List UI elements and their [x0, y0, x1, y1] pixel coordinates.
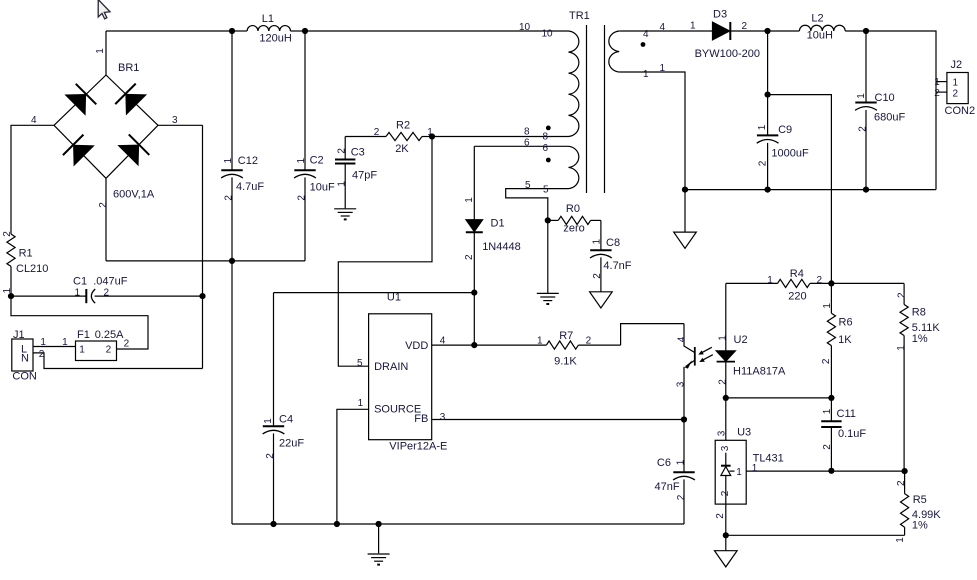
svg-text:D1: D1	[491, 218, 505, 230]
node top-rail junction left	[229, 28, 235, 34]
svg-text:22uF: 22uF	[279, 438, 304, 450]
svg-text:CON: CON	[12, 371, 37, 383]
wire TR1 pin4 to D3	[619, 30, 712, 32]
svg-text:1: 1	[690, 21, 696, 32]
diode BR1 top-right	[115, 84, 146, 115]
svg-text:2: 2	[934, 88, 940, 99]
wire bridge pin1 to rail	[105, 31, 107, 75]
svg-text:2: 2	[586, 336, 592, 347]
diode BR1 bottom-left	[63, 135, 94, 166]
wire bridge pin2 down	[105, 178, 107, 261]
svg-text:2: 2	[822, 444, 833, 450]
node R1/C1/fuse junction	[8, 293, 14, 299]
wire R5 bottom to TL431 anode	[726, 534, 905, 536]
svg-text:R8: R8	[912, 307, 926, 319]
svg-text:1: 1	[296, 157, 307, 163]
node C9 bottom junction	[765, 187, 771, 193]
svg-text:1: 1	[856, 93, 867, 99]
svg-text:TR1: TR1	[569, 10, 590, 22]
svg-text:3: 3	[440, 412, 446, 423]
capacitor C8	[600, 220, 602, 250]
svg-text:0.25A: 0.25A	[95, 329, 124, 341]
svg-text:2: 2	[821, 358, 832, 364]
wire D3 to L2 node	[730, 30, 767, 32]
diode BR1 bottom-right	[118, 134, 149, 165]
ground C3	[334, 209, 356, 220]
svg-text:5: 5	[543, 184, 549, 195]
svg-text:2: 2	[718, 379, 729, 385]
svg-text:J1: J1	[13, 329, 25, 341]
node FB/C6 junction	[681, 416, 687, 422]
capacitor C3	[344, 137, 346, 160]
node U3 anode junction	[723, 532, 729, 538]
svg-text:U2: U2	[734, 334, 748, 346]
svg-text:1N4448: 1N4448	[482, 241, 521, 253]
svg-text:C6: C6	[657, 457, 671, 469]
svg-text:L1: L1	[262, 13, 274, 25]
svg-text:3: 3	[172, 115, 178, 126]
wire neutral vertical	[202, 125, 204, 368]
wire TR1 pin8 lead	[432, 136, 569, 138]
svg-text:VIPer12A-E: VIPer12A-E	[389, 441, 447, 453]
svg-text:1: 1	[934, 77, 940, 88]
wire primary ground rail	[232, 523, 684, 525]
wire L1 lead right	[291, 30, 306, 32]
svg-text:1: 1	[767, 275, 773, 286]
resistor R5	[904, 471, 906, 494]
ground C8	[590, 292, 613, 308]
svg-text:8: 8	[543, 131, 549, 142]
wire L2 lead left	[768, 30, 800, 32]
ground TL431	[715, 551, 738, 567]
svg-text:120uH: 120uH	[259, 33, 291, 45]
svg-text:C2: C2	[310, 155, 324, 167]
light arrows U2	[702, 347, 713, 360]
wire TR1 pin6 lead	[474, 145, 568, 147]
svg-text:2: 2	[104, 287, 110, 298]
capacitor C10	[865, 31, 867, 103]
svg-text:C10: C10	[875, 92, 895, 104]
svg-text:1: 1	[896, 345, 907, 351]
svg-text:H11A817A: H11A817A	[733, 366, 786, 378]
node C9 top junction	[765, 92, 771, 98]
svg-text:2: 2	[953, 89, 959, 100]
svg-text:C4: C4	[279, 414, 293, 426]
svg-text:L2: L2	[811, 13, 823, 25]
svg-text:BYW100-200: BYW100-200	[695, 48, 760, 60]
svg-text:1: 1	[736, 467, 742, 478]
svg-text:F1: F1	[77, 329, 90, 341]
svg-text:2: 2	[98, 202, 109, 208]
transistor U2 phototransistor	[684, 324, 695, 353]
wire ground stub	[378, 524, 380, 553]
transformer TR1 core	[587, 25, 605, 193]
svg-text:2: 2	[296, 195, 307, 201]
wire J2 pin2 stub	[936, 91, 947, 93]
wire AC+ top rail left	[106, 30, 232, 32]
svg-text:2: 2	[124, 339, 130, 350]
wire U1 FB pin	[432, 419, 684, 421]
wire U3 anode down	[725, 504, 727, 535]
svg-text:3: 3	[720, 445, 731, 451]
node R2/TR1 pin8/drain junction	[429, 133, 435, 139]
wire J2 pin1 stub	[936, 81, 947, 83]
svg-text:1: 1	[675, 459, 686, 465]
svg-text:2: 2	[858, 126, 869, 132]
diode D1	[473, 146, 475, 219]
node LED cathode junction	[723, 395, 729, 401]
svg-text:680uF: 680uF	[874, 112, 905, 124]
wire TR1 pin1 down	[619, 72, 685, 232]
capacitor C4	[273, 293, 275, 427]
svg-text:2: 2	[742, 21, 748, 32]
svg-text:zero: zero	[563, 223, 584, 235]
node TR1 aux polarity dot	[546, 158, 551, 163]
connector J2	[947, 73, 968, 104]
svg-text:1%: 1%	[912, 520, 928, 532]
svg-text:DRAIN: DRAIN	[374, 361, 408, 373]
wire U3 anode to ground	[725, 535, 727, 550]
wire U1 source pin	[337, 409, 369, 524]
resistor R4	[726, 282, 778, 284]
mouse cursor	[98, 0, 110, 19]
svg-text:J2: J2	[951, 59, 963, 71]
svg-text:4: 4	[676, 336, 687, 342]
svg-text:1: 1	[336, 181, 347, 187]
svg-text:1: 1	[643, 69, 649, 80]
svg-text:2: 2	[676, 494, 687, 500]
ground aux winding	[537, 293, 559, 304]
node D3 cathode junction	[764, 28, 770, 34]
bridge rectifier BR1 frame	[54, 75, 158, 178]
wire secondary ground rail	[685, 189, 936, 191]
svg-text:2: 2	[223, 195, 234, 201]
svg-text:8: 8	[524, 127, 530, 138]
diode U2 LED	[725, 283, 727, 350]
wire TR1 pin5 jog	[506, 189, 569, 221]
svg-text:10: 10	[542, 29, 554, 40]
svg-text:1: 1	[464, 197, 475, 203]
diode BR1 top-left	[65, 84, 96, 115]
op-amp U1 VIPer12A-E body	[369, 314, 432, 440]
diode U3 TL431 symbol	[721, 465, 731, 467]
svg-text:C8: C8	[606, 237, 620, 249]
svg-text:2: 2	[39, 349, 45, 360]
svg-text:10uH: 10uH	[807, 30, 833, 42]
svg-text:2: 2	[758, 160, 769, 166]
svg-text:0.1uF: 0.1uF	[838, 428, 866, 440]
node top-rail junction right	[302, 28, 308, 34]
wire U1 VDD pin	[432, 344, 475, 346]
node R0 junction	[545, 217, 551, 223]
wire bridge pin2 to C2/C12	[106, 260, 305, 262]
capacitor C2	[304, 31, 306, 170]
transformer TR1 aux winding	[569, 146, 579, 188]
svg-text:1000uF: 1000uF	[771, 148, 809, 160]
svg-text:3: 3	[676, 381, 687, 387]
op-amp U3 TL431 body	[715, 440, 746, 504]
svg-text:CL210: CL210	[16, 263, 48, 275]
svg-text:2: 2	[592, 273, 603, 279]
svg-text:47pF: 47pF	[352, 170, 377, 182]
svg-text:9.1K: 9.1K	[554, 356, 577, 368]
svg-text:VDD: VDD	[405, 340, 428, 352]
svg-text:2K: 2K	[395, 143, 409, 155]
svg-text:1: 1	[822, 303, 833, 309]
wire opto cathode to R6	[726, 397, 832, 399]
resistor R0	[548, 219, 558, 221]
node output rail junction	[863, 28, 869, 34]
capacitor C6	[683, 420, 685, 473]
node R4/R6 junction	[828, 280, 834, 286]
svg-text:R1: R1	[19, 248, 33, 260]
node R8/R5 junction	[902, 468, 908, 474]
resistor R6	[830, 283, 832, 313]
node VDD junction	[471, 342, 477, 348]
wire bridge pin3 right	[158, 124, 203, 126]
svg-text:2: 2	[265, 453, 276, 459]
svg-text:C9: C9	[778, 124, 792, 136]
transformer TR1 primary winding	[569, 31, 579, 137]
wire LED cathode to U3	[725, 398, 727, 440]
capacitor C11	[830, 398, 832, 421]
svg-text:.047uF: .047uF	[93, 276, 128, 288]
svg-text:2: 2	[374, 127, 380, 138]
resistor R2	[345, 136, 386, 138]
node C12 bottom junction	[229, 258, 235, 264]
node R6/C11 junction	[828, 395, 834, 401]
svg-text:2: 2	[336, 148, 347, 154]
connector J1	[12, 339, 33, 371]
svg-text:1: 1	[592, 238, 603, 244]
wire J1 pin2 to neutral	[33, 353, 203, 369]
wire J1 pin1 to F1	[33, 346, 76, 348]
wire L1 lead left	[232, 30, 247, 32]
wire L2 lead right	[845, 30, 866, 32]
capacitor C9	[767, 31, 769, 135]
svg-text:R2: R2	[396, 120, 410, 132]
svg-text:1: 1	[79, 344, 85, 355]
svg-text:1: 1	[822, 408, 833, 414]
svg-text:C3: C3	[351, 147, 365, 159]
wire R1 to C1 node	[10, 266, 12, 296]
fuse F1	[76, 341, 117, 361]
svg-text:R5: R5	[913, 494, 927, 506]
node C10 bottom junction	[863, 187, 869, 193]
svg-text:2: 2	[715, 513, 726, 519]
svg-text:R7: R7	[559, 330, 573, 342]
svg-text:1K: 1K	[838, 334, 852, 346]
svg-text:1: 1	[537, 336, 543, 347]
svg-text:47nF: 47nF	[655, 481, 680, 493]
wire C4 to VDD node	[274, 292, 475, 294]
svg-text:2: 2	[896, 480, 907, 486]
node C1 pin2 junction	[199, 293, 205, 299]
diode D3	[712, 22, 729, 40]
wire R7 to opto collector	[621, 324, 684, 346]
svg-text:3: 3	[716, 430, 727, 436]
svg-text:2: 2	[896, 292, 907, 298]
svg-text:4: 4	[31, 115, 37, 126]
svg-text:FB: FB	[414, 413, 428, 425]
svg-text:R0: R0	[566, 203, 580, 215]
svg-text:1: 1	[223, 157, 234, 163]
svg-text:6: 6	[543, 143, 549, 154]
svg-text:4.7nF: 4.7nF	[603, 260, 631, 272]
svg-text:1: 1	[953, 78, 959, 89]
svg-text:D3: D3	[713, 9, 727, 21]
svg-text:1%: 1%	[912, 333, 928, 345]
wire top rail to TR1 pin10	[305, 30, 569, 32]
ground secondary return	[674, 232, 697, 248]
svg-text:C1: C1	[73, 276, 87, 288]
svg-text:CON2: CON2	[945, 105, 976, 117]
node source rail junction	[334, 521, 340, 527]
svg-text:N: N	[21, 353, 29, 365]
svg-text:2: 2	[106, 344, 112, 355]
svg-text:1: 1	[718, 335, 729, 341]
svg-text:TL431: TL431	[753, 453, 784, 465]
node C11 bottom junction	[828, 468, 834, 474]
wire fuse loop	[11, 296, 148, 349]
svg-text:1: 1	[75, 287, 81, 298]
wire U1 drain net	[338, 137, 432, 367]
svg-text:U3: U3	[737, 427, 751, 439]
svg-text:10: 10	[519, 22, 531, 33]
svg-text:1: 1	[895, 537, 906, 543]
node TR1 primary polarity dot	[546, 126, 551, 131]
inductor L2	[799, 25, 845, 31]
svg-text:5: 5	[357, 358, 363, 369]
svg-text:4.7uF: 4.7uF	[236, 181, 264, 193]
svg-text:1: 1	[757, 124, 768, 130]
svg-text:R6: R6	[839, 317, 853, 329]
svg-text:6: 6	[524, 137, 530, 148]
ground primary rail	[368, 554, 390, 565]
svg-text:2: 2	[2, 231, 13, 237]
node secondary return junction	[682, 187, 688, 193]
resistor R1	[7, 234, 15, 266]
svg-text:1: 1	[358, 398, 364, 409]
svg-text:1: 1	[40, 337, 46, 348]
transformer TR1 secondary winding	[609, 31, 619, 72]
svg-text:2: 2	[817, 275, 823, 286]
node D1/C4 junction	[471, 290, 477, 296]
wire TL431 ref line	[746, 470, 904, 472]
svg-text:2: 2	[464, 254, 475, 260]
capacitor C12	[231, 31, 233, 170]
wire feedback tap	[768, 95, 832, 284]
svg-text:1: 1	[62, 337, 68, 348]
node ground stub junction	[376, 521, 382, 527]
node TR1 secondary polarity dot	[641, 42, 646, 47]
svg-text:U1: U1	[387, 292, 401, 304]
svg-text:220: 220	[788, 291, 806, 303]
wire output rail to J2	[866, 31, 936, 190]
svg-text:R4: R4	[790, 268, 804, 280]
svg-text:C11: C11	[837, 408, 856, 420]
wire bridge pin4 to R1	[11, 125, 54, 234]
node C4 rail junction	[270, 521, 276, 527]
capacitor C1	[11, 295, 86, 297]
svg-text:1: 1	[95, 48, 106, 54]
resistor R8	[903, 283, 905, 304]
wire R0 node to ground	[547, 220, 549, 293]
svg-text:10uF: 10uF	[310, 182, 335, 194]
svg-text:600V,1A: 600V,1A	[113, 189, 155, 201]
svg-text:5: 5	[525, 180, 531, 191]
svg-text:1: 1	[263, 418, 274, 424]
svg-text:4: 4	[440, 336, 446, 347]
svg-text:BR1: BR1	[118, 62, 139, 74]
svg-text:C12: C12	[238, 155, 258, 167]
resistor R7	[474, 344, 546, 346]
inductor L1	[247, 26, 290, 31]
